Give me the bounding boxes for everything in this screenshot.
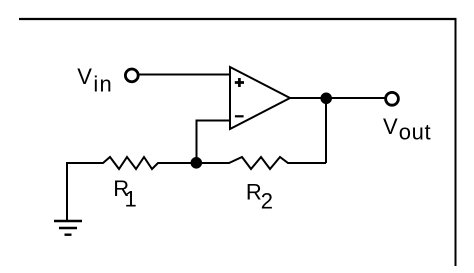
svg-text:V: V — [383, 114, 398, 139]
svg-text:1: 1 — [125, 186, 137, 211]
svg-text:in: in — [93, 71, 113, 96]
svg-text:R: R — [246, 180, 262, 205]
svg-text:2: 2 — [261, 189, 273, 214]
svg-text:V: V — [77, 64, 92, 89]
svg-text:out: out — [399, 120, 431, 145]
